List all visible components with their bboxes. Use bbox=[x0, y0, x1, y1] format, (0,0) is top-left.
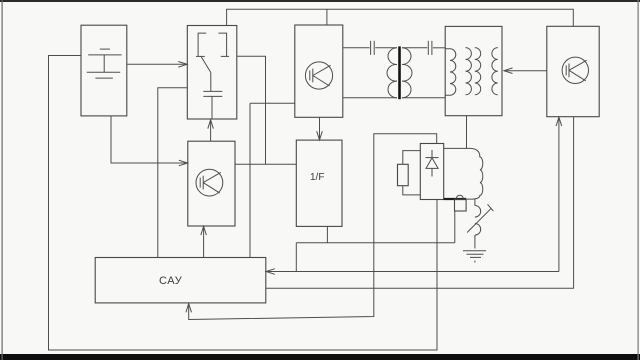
frame top border bbox=[0, 0, 640, 2]
arrowhead bbox=[208, 120, 214, 129]
ground bbox=[463, 251, 486, 265]
transformer secondary winding bbox=[402, 48, 412, 98]
block: 1/F converter box bbox=[296, 140, 342, 226]
wire dc-link sense horizontal bbox=[250, 102, 295, 104]
wire winding box bottom to rectifier bbox=[466, 116, 468, 149]
wire bus drop to inverter bbox=[326, 9, 328, 25]
block: CAY control box bbox=[95, 258, 266, 303]
block: multi-winding output transformer box bbox=[445, 26, 502, 115]
wire rectifier feedback top bbox=[189, 134, 437, 320]
wire secondary top with capacitor bbox=[402, 41, 445, 55]
thick link wire bbox=[444, 198, 466, 200]
wire output box to winding box arrow bbox=[504, 70, 547, 72]
wire branch down from 1/F line bbox=[295, 243, 297, 272]
wire diode bottom down bbox=[436, 200, 438, 351]
spark gap with blade bbox=[467, 199, 493, 248]
frame right border bbox=[638, 0, 639, 360]
transformer primary winding bbox=[387, 48, 397, 98]
wire CAY output to output box bottom bbox=[266, 117, 574, 289]
resistor wires bbox=[403, 151, 421, 195]
wire snubber down to 1/F line bbox=[454, 211, 456, 243]
battery symbol bbox=[87, 49, 122, 78]
winding column 3 bbox=[492, 48, 498, 95]
svg-text:1/F: 1/F bbox=[310, 172, 324, 183]
wire inverter to 1/F arrow bbox=[319, 117, 321, 140]
switch contact left bbox=[196, 33, 206, 56]
wire hop bump bbox=[456, 195, 463, 198]
driver transistor circle bbox=[196, 169, 223, 196]
capacitor C bbox=[203, 73, 222, 120]
wire 1/F output down bbox=[326, 226, 328, 242]
arrowhead bbox=[317, 131, 323, 140]
transformer core bbox=[398, 46, 401, 99]
top bus wire bbox=[227, 9, 574, 26]
resistor R bbox=[398, 164, 409, 185]
block: inverter box U1 bbox=[295, 25, 343, 117]
wire transformer primary bottom bbox=[343, 97, 397, 99]
arrowhead bbox=[179, 160, 188, 166]
diode VD bbox=[425, 150, 438, 177]
wire to CAY right arrow and output box bottom arrow bbox=[266, 271, 559, 273]
winding column 2b bbox=[475, 48, 481, 95]
wire inverter to transformer top with capacitor bbox=[343, 41, 397, 55]
arrowhead bbox=[556, 117, 562, 126]
wire CAY to driver arrow bbox=[203, 226, 205, 257]
wire secondary bottom bbox=[402, 97, 445, 99]
frame left border bbox=[2, 0, 3, 360]
rectifier choke loop bbox=[444, 148, 483, 199]
block: snubber box bbox=[455, 199, 467, 211]
block: output converter box bbox=[547, 26, 599, 116]
block: contactor/filter box bbox=[187, 26, 237, 120]
wire contactor left to CAY bbox=[158, 88, 188, 258]
arrowhead bbox=[504, 68, 513, 74]
arrowhead bbox=[266, 269, 275, 275]
winding column 1 bbox=[445, 49, 456, 95]
wire 1/F output horizontal bbox=[296, 242, 455, 244]
svg-text:САУ: САУ bbox=[159, 275, 183, 287]
inverter transistor circle bbox=[305, 62, 332, 89]
wire battery to contactor arrow bbox=[127, 63, 187, 65]
block: battery source box bbox=[81, 25, 127, 116]
switch contact right bbox=[219, 33, 230, 56]
output transistor circle bbox=[562, 57, 588, 83]
frame bottom bar bbox=[0, 354, 640, 360]
switch blade bbox=[201, 56, 211, 72]
arrowhead bbox=[201, 226, 207, 235]
wire dc-link sense vertical to CAY bbox=[249, 103, 251, 257]
arrowhead bbox=[186, 304, 192, 313]
wire contactor right jog down bbox=[237, 56, 266, 164]
block: rectifier diode box bbox=[420, 144, 443, 200]
wire battery left loop to diode bottom bbox=[49, 56, 438, 351]
wire up into output box bbox=[558, 117, 560, 271]
arrowhead bbox=[178, 62, 187, 68]
winding column 2a bbox=[466, 48, 472, 95]
wire driver to 1/F bbox=[235, 163, 296, 165]
wire battery bottom to driver arrow bbox=[111, 116, 187, 163]
block: driver box K bbox=[188, 141, 235, 226]
wire driver to contactor arrow bbox=[210, 120, 212, 141]
